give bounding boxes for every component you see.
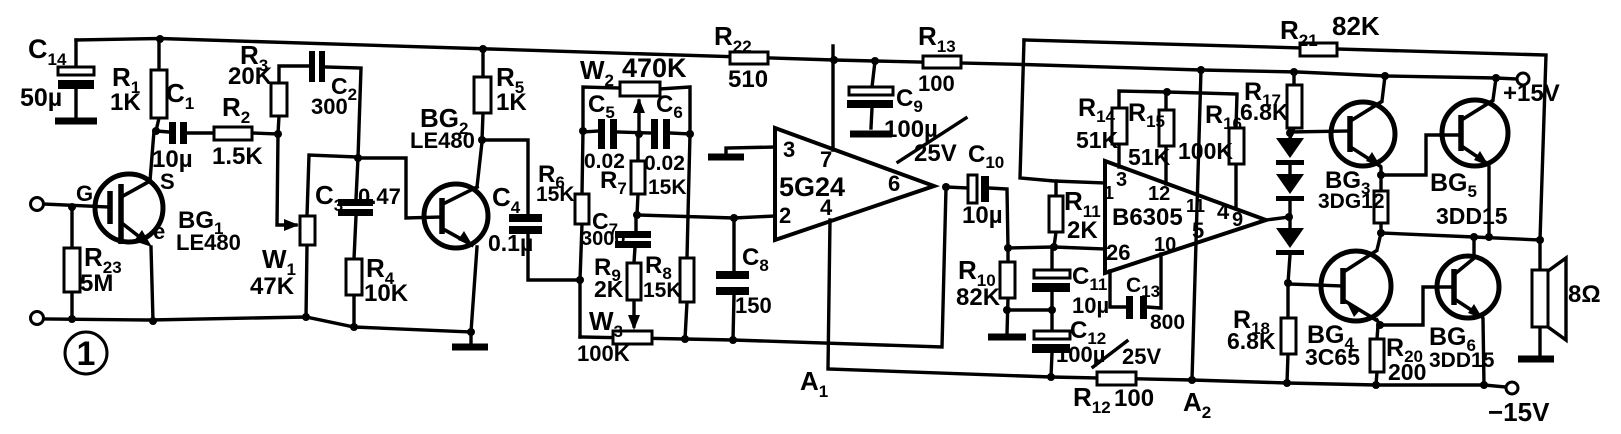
svg-text:100K: 100K bbox=[1178, 138, 1233, 164]
svg-text:1K: 1K bbox=[110, 89, 141, 116]
svg-text:10µ: 10µ bbox=[962, 202, 1003, 229]
svg-text:10: 10 bbox=[1154, 234, 1176, 256]
svg-text:LE480: LE480 bbox=[410, 128, 475, 153]
svg-text:150: 150 bbox=[735, 293, 772, 318]
svg-text:9: 9 bbox=[1232, 209, 1243, 231]
svg-text:4: 4 bbox=[820, 195, 833, 220]
svg-text:100µ: 100µ bbox=[884, 116, 938, 143]
svg-text:2K: 2K bbox=[594, 276, 624, 302]
svg-text:470K: 470K bbox=[622, 53, 687, 83]
svg-text:3C65: 3C65 bbox=[1305, 344, 1360, 370]
svg-text:8Ω: 8Ω bbox=[1568, 281, 1601, 308]
svg-text:3DD15: 3DD15 bbox=[1436, 203, 1508, 229]
svg-text:LE480: LE480 bbox=[176, 230, 241, 255]
svg-text:0.47: 0.47 bbox=[358, 184, 401, 209]
svg-text:0.1µ: 0.1µ bbox=[488, 230, 533, 256]
svg-text:1: 1 bbox=[1104, 183, 1114, 203]
svg-text:51K: 51K bbox=[1128, 144, 1171, 170]
svg-text:3DG12: 3DG12 bbox=[1318, 190, 1385, 213]
svg-text:+15V: +15V bbox=[1503, 80, 1560, 107]
svg-text:51K: 51K bbox=[1076, 127, 1119, 153]
svg-text:3: 3 bbox=[1116, 169, 1127, 191]
svg-text:15K: 15K bbox=[648, 176, 687, 199]
svg-text:2K: 2K bbox=[1067, 217, 1098, 244]
svg-text:5G24: 5G24 bbox=[779, 172, 845, 202]
svg-text:82K: 82K bbox=[956, 284, 1001, 311]
svg-text:1.5K: 1.5K bbox=[212, 143, 263, 170]
svg-text:25V: 25V bbox=[1122, 344, 1161, 369]
svg-text:20K: 20K bbox=[228, 63, 273, 90]
svg-text:82K: 82K bbox=[1332, 11, 1380, 41]
svg-text:1: 1 bbox=[77, 335, 96, 373]
svg-text:100K: 100K bbox=[577, 341, 630, 366]
svg-text:0.02: 0.02 bbox=[644, 152, 685, 175]
svg-text:800: 800 bbox=[1150, 311, 1185, 334]
svg-text:1K: 1K bbox=[496, 89, 527, 116]
svg-text:26: 26 bbox=[1106, 240, 1130, 265]
svg-text:3DD15: 3DD15 bbox=[1429, 349, 1495, 372]
svg-text:100: 100 bbox=[1114, 385, 1154, 412]
svg-text:−15V: −15V bbox=[1488, 397, 1550, 427]
svg-text:10µ: 10µ bbox=[1072, 293, 1109, 318]
svg-text:6.8K: 6.8K bbox=[1240, 99, 1289, 125]
svg-text:10K: 10K bbox=[364, 280, 409, 307]
svg-text:15K: 15K bbox=[643, 279, 682, 302]
svg-text:25V: 25V bbox=[914, 140, 957, 167]
svg-text:e: e bbox=[153, 219, 165, 244]
svg-text:5: 5 bbox=[1192, 218, 1204, 243]
svg-text:50µ: 50µ bbox=[20, 84, 62, 112]
svg-text:100: 100 bbox=[918, 71, 955, 96]
svg-text:15K: 15K bbox=[536, 183, 575, 206]
svg-text:5M: 5M bbox=[80, 270, 113, 297]
svg-text:G: G bbox=[76, 181, 93, 206]
svg-text:300: 300 bbox=[311, 94, 348, 119]
svg-text:6: 6 bbox=[888, 171, 900, 196]
svg-text:510: 510 bbox=[728, 66, 768, 93]
svg-text:B6305: B6305 bbox=[1112, 204, 1183, 231]
svg-text:3: 3 bbox=[783, 137, 795, 162]
svg-text:2: 2 bbox=[779, 203, 791, 228]
svg-text:4: 4 bbox=[1217, 199, 1230, 224]
svg-text:7: 7 bbox=[820, 147, 832, 172]
svg-text:11: 11 bbox=[1186, 196, 1205, 216]
svg-text:200: 200 bbox=[1388, 359, 1426, 385]
svg-text:47K: 47K bbox=[250, 273, 295, 300]
svg-text:3000: 3000 bbox=[581, 228, 626, 250]
svg-text:12: 12 bbox=[1148, 183, 1170, 205]
svg-text:6.8K: 6.8K bbox=[1227, 328, 1276, 354]
svg-text:S: S bbox=[160, 169, 175, 194]
